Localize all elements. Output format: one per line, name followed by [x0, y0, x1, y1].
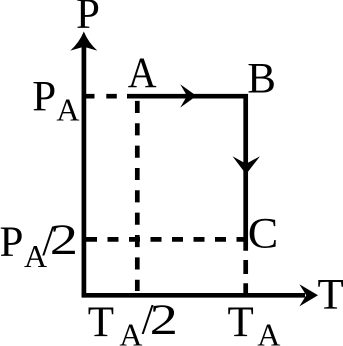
- svg-text:A: A: [56, 91, 79, 127]
- svg-text:T: T: [318, 272, 343, 319]
- svg-text:2: 2: [150, 297, 178, 344]
- svg-text:2: 2: [50, 217, 78, 264]
- svg-text:C: C: [248, 211, 278, 258]
- dashed line at P_A level: [84, 94, 127, 99]
- svg-text:A: A: [128, 50, 157, 97]
- P axis arrowhead: [70, 32, 97, 51]
- svg-text:P: P: [32, 73, 56, 120]
- svg-text:A: A: [257, 317, 280, 346]
- svg-text:T: T: [88, 299, 114, 346]
- arrow on B-C (downward): [233, 156, 261, 174]
- dashed line at P_A/2 level: [86, 237, 248, 242]
- svg-text:P: P: [76, 0, 100, 38]
- svg-text:P: P: [0, 219, 23, 266]
- arrow on A-B (rightward): [180, 84, 196, 107]
- dashed vertical at T_A/2: [135, 101, 140, 291]
- svg-text:T: T: [228, 299, 254, 346]
- svg-text:B: B: [247, 56, 276, 103]
- wire A to B to C (solid process path): [127, 96, 246, 251]
- dashed vertical below C to T axis: [243, 260, 248, 293]
- svg-text:A: A: [119, 317, 142, 346]
- T axis arrowhead: [299, 284, 318, 306]
- P axis (vertical line): [82, 45, 87, 297]
- T axis (horizontal line): [82, 293, 305, 298]
